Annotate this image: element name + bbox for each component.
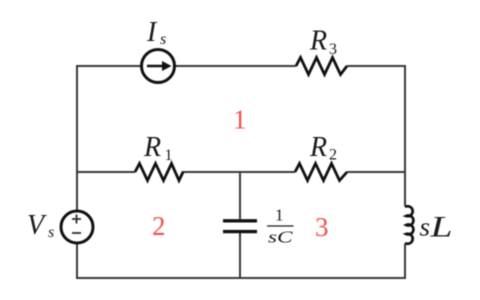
svg-text:R: R (309, 26, 327, 57)
current source Is (142, 50, 175, 83)
svg-text:1: 1 (275, 206, 284, 225)
label Is (146, 17, 166, 48)
wire middle rail right segment (347, 171, 405, 173)
label R1 (143, 132, 173, 164)
svg-text:sC: sC (268, 228, 293, 247)
svg-text:1: 1 (233, 105, 247, 135)
wire top rail right segment (347, 65, 405, 67)
svg-text:s: s (48, 224, 54, 241)
resistor R1 (135, 164, 183, 181)
svg-text:2: 2 (329, 147, 337, 164)
resistor R3 (296, 58, 347, 75)
wire left rail upper segment (76, 65, 78, 211)
svg-text:R: R (309, 132, 327, 163)
inductor L (405, 206, 413, 244)
label R2 (309, 132, 337, 164)
value label 1/sC (267, 206, 294, 247)
svg-text:I: I (146, 17, 158, 48)
voltage source Vs (61, 211, 93, 243)
wire top rail left segment (77, 65, 142, 67)
wire capacitor branch upper segment (239, 172, 241, 219)
label Vs (27, 210, 54, 241)
wire capacitor branch lower segment (239, 233, 241, 279)
svg-text:s: s (420, 213, 431, 242)
svg-text:2: 2 (152, 211, 166, 241)
wire bottom rail (76, 277, 406, 279)
svg-text:3: 3 (329, 41, 337, 58)
wire left rail lower segment (76, 243, 78, 279)
wire top rail middle segment (175, 65, 296, 67)
svg-text:R: R (143, 132, 161, 163)
capacitor C (223, 221, 257, 232)
wire middle rail left segment (77, 171, 135, 173)
wire right rail lower segment (404, 244, 406, 279)
wire right rail upper segment (404, 65, 406, 206)
label R3 (309, 26, 337, 59)
svg-text:3: 3 (315, 212, 329, 242)
resistor R2 (295, 164, 347, 181)
svg-text:1: 1 (165, 147, 173, 164)
svg-text:L: L (429, 211, 452, 244)
wire middle rail center segment (182, 171, 295, 173)
value label sL (420, 211, 453, 244)
svg-text:s: s (160, 31, 166, 48)
svg-text:V: V (27, 210, 47, 241)
